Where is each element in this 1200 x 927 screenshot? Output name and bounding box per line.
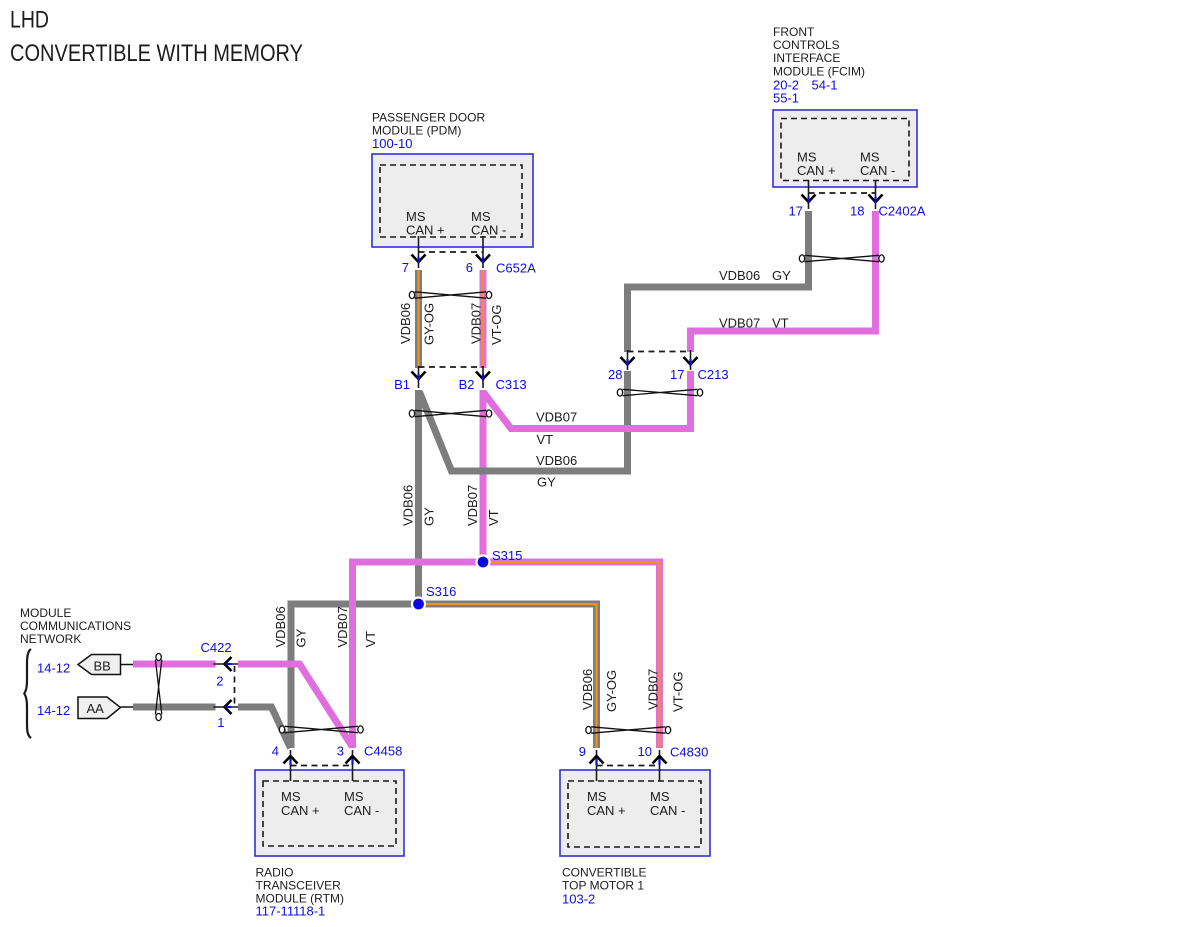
- CTM1 pin text MS CAN +: [587, 789, 626, 818]
- pin B1 arrow at C313: [412, 366, 426, 388]
- svg-text:MS: MS: [650, 789, 670, 804]
- wire VDB06 GY from FCIM pin 17 to C213 pin 28: [628, 211, 809, 352]
- connector label C2402A pins 17 18: [789, 204, 926, 219]
- svg-text:103-2: 103-2: [562, 892, 595, 907]
- RTM pin text MS CAN -: [344, 789, 379, 818]
- wire VDB07 VT-OG base from PDM pin 6 to C313 B2: [480, 270, 487, 368]
- svg-text:VDB07: VDB07: [646, 669, 661, 710]
- wire VDB07 VT from C422 pin 2 diagonal to C4458 pin 3: [238, 664, 353, 747]
- svg-text:C213: C213: [698, 367, 729, 382]
- wire label VDB07 VT above C4458: [335, 606, 378, 647]
- label PASSENGER DOOR MODULE (PDM) 100-10: [372, 110, 485, 151]
- svg-text:VT: VT: [363, 631, 378, 648]
- module box PDM: [372, 154, 533, 247]
- connector label C313 pins B1 B2: [394, 377, 526, 392]
- svg-text:C422: C422: [201, 640, 232, 655]
- svg-text:54-1: 54-1: [812, 78, 838, 93]
- wire label VDB06 GY-OG at PDM pin 7: [398, 303, 437, 345]
- orange stripe of VT-OG wire S315 to C4830 pin 10: [485, 562, 660, 748]
- CTM1 pin text MS CAN -: [650, 789, 685, 818]
- svg-text:LHD: LHD: [10, 7, 49, 34]
- svg-text:VT: VT: [772, 316, 789, 331]
- svg-text:GY: GY: [422, 507, 437, 526]
- FCIM pin text MS CAN +: [797, 150, 836, 179]
- wire VDB07 VT from BB flag to C422 pin 2: [133, 661, 216, 668]
- svg-text:C652A: C652A: [496, 261, 536, 276]
- wire VDB06 GY from C422 pin 1 diagonal to C4458 pin 4: [238, 707, 291, 748]
- svg-text:B2: B2: [459, 377, 475, 392]
- connector label C4458 pins 4 3: [272, 744, 403, 759]
- svg-text:CAN -: CAN -: [860, 163, 895, 178]
- svg-text:6: 6: [466, 260, 473, 275]
- label FRONT CONTROLS INTERFACE MODULE (FCIM) 20-2 54-1 55-1: [773, 25, 865, 106]
- twisted pair symbol above C4830: [586, 726, 671, 733]
- svg-text:VDB07: VDB07: [469, 303, 484, 344]
- connector C213 dashed line: [628, 351, 691, 353]
- svg-text:VDB06: VDB06: [398, 303, 413, 344]
- svg-text:10: 10: [638, 744, 652, 759]
- wire label VDB06 GY upper run: [719, 268, 791, 283]
- svg-text:MS: MS: [281, 789, 301, 804]
- svg-text:VDB07: VDB07: [335, 606, 350, 647]
- svg-text:TOP MOTOR 1: TOP MOTOR 1: [562, 879, 644, 893]
- wire label VDB07 VT middle run: [536, 410, 577, 448]
- orange stripe of GY-OG wire at PDM pin 7: [417, 270, 419, 368]
- label CONVERTIBLE TOP MOTOR 1 103-2: [562, 866, 646, 907]
- wire VDB07 VT segment C313 B2 to splice S315: [480, 390, 487, 562]
- connector label C422 pins 2 1: [201, 640, 232, 730]
- pin 28 arrow at C213: [621, 350, 635, 370]
- svg-text:VDB06: VDB06: [580, 669, 595, 710]
- network flag AA: [78, 697, 133, 719]
- svg-text:118-1: 118-1: [293, 904, 325, 919]
- svg-text:28: 28: [608, 367, 622, 382]
- svg-text:CAN +: CAN +: [587, 803, 626, 818]
- svg-text:CAN +: CAN +: [281, 803, 320, 818]
- twisted pair symbol below C313: [409, 410, 491, 417]
- svg-text:VT-OG: VT-OG: [671, 672, 686, 712]
- svg-text:CONVERTIBLE: CONVERTIBLE: [562, 866, 646, 880]
- PDM pin text MS CAN -: [471, 209, 506, 238]
- svg-text:CAN -: CAN -: [471, 223, 506, 238]
- connector label C4830 pins 9 10: [579, 744, 709, 760]
- svg-text:55-1: 55-1: [773, 91, 799, 106]
- svg-text:3: 3: [337, 744, 344, 759]
- svg-text:PASSENGER DOOR: PASSENGER DOOR: [372, 110, 485, 124]
- wire label VDB06 GY above C4458: [273, 606, 309, 647]
- svg-text:117-11: 117-11: [256, 904, 295, 919]
- connector label C652A pins 7 6: [402, 260, 536, 276]
- wire VDB06 GY from AA flag to C422 pin 1: [133, 704, 216, 711]
- label MODULE COMMUNICATIONS NETWORK: [20, 606, 131, 646]
- svg-text:NETWORK: NETWORK: [20, 632, 81, 646]
- svg-text:RADIO: RADIO: [256, 866, 294, 880]
- svg-text:17: 17: [789, 204, 803, 219]
- svg-text:S315: S315: [492, 548, 522, 563]
- svg-text:CONTROLS: CONTROLS: [773, 38, 840, 52]
- pin 4 arrow at C4458: [284, 750, 298, 781]
- svg-text:VDB06: VDB06: [719, 268, 760, 283]
- svg-text:CAN +: CAN +: [406, 223, 445, 238]
- svg-text:VT: VT: [486, 509, 501, 526]
- RTM pin text MS CAN +: [281, 789, 320, 818]
- pin 3 arrow at C4458: [346, 750, 360, 781]
- svg-text:CONVERTIBLE WITH MEMORY: CONVERTIBLE WITH MEMORY: [10, 40, 303, 67]
- module box CONVERTIBLE TOP MOTOR 1: [560, 770, 710, 856]
- svg-text:GY: GY: [294, 628, 309, 647]
- wire VDB06 GY-OG base from PDM pin 7 to C313 B1: [415, 270, 422, 368]
- svg-text:S316: S316: [426, 584, 456, 599]
- svg-text:CAN -: CAN -: [650, 803, 685, 818]
- wire VDB06 GY from S316 left and down to C4458 pin 4: [291, 604, 419, 748]
- pin B2 arrow at C313: [476, 366, 490, 388]
- module box FCIM: [773, 110, 917, 187]
- svg-text:MODULE (FCIM): MODULE (FCIM): [773, 65, 865, 79]
- svg-text:VDB07: VDB07: [465, 485, 480, 526]
- pin 17 arrow at C2402A: [802, 180, 816, 209]
- svg-text:VDB06: VDB06: [401, 485, 416, 526]
- svg-text:B1: B1: [394, 377, 410, 392]
- svg-text:C313: C313: [496, 377, 527, 392]
- svg-text:CAN +: CAN +: [797, 163, 836, 178]
- twisted pair symbol at C422: [155, 653, 161, 720]
- svg-text:17: 17: [670, 367, 684, 382]
- connector label C213 pins 28 17: [608, 367, 729, 382]
- svg-text:AA: AA: [87, 701, 105, 716]
- wire label VDB07 VT upper run: [719, 316, 789, 331]
- connector C4458 dashed line: [291, 765, 353, 767]
- wire label VDB07 VT-OG at PDM pin 6: [469, 303, 505, 345]
- label RADIO TRANSCEIVER MODULE (RTM) 117-11 118-1: [256, 866, 344, 919]
- pin 1 arrow at C422: [214, 700, 239, 714]
- pin 18 arrow at C2402A: [869, 180, 883, 209]
- pin 2 arrow at C422: [214, 657, 239, 671]
- svg-text:VDB06: VDB06: [536, 453, 577, 468]
- twisted pair symbol at C652A: [409, 291, 491, 298]
- twisted pair symbol at C213: [617, 389, 702, 396]
- wire label VDB07 VT below C313: [465, 485, 501, 526]
- svg-text:2: 2: [216, 674, 223, 689]
- svg-text:14-12: 14-12: [37, 661, 70, 676]
- FCIM pin text MS CAN -: [860, 150, 895, 179]
- svg-text:BB: BB: [94, 659, 111, 674]
- PDM pin text MS CAN +: [406, 209, 445, 238]
- svg-text:7: 7: [402, 260, 409, 275]
- connector C313 dashed line: [419, 366, 484, 368]
- pin 17 arrow at C213: [684, 350, 698, 370]
- module box RTM: [255, 770, 404, 856]
- splice S315: [475, 554, 490, 569]
- splice S316: [411, 596, 426, 611]
- svg-text:14-12: 14-12: [37, 703, 70, 718]
- wire VDB07 VT from FCIM pin 18 to C213 pin 17: [691, 211, 876, 352]
- svg-text:GY-OG: GY-OG: [422, 303, 437, 345]
- svg-text:9: 9: [579, 744, 586, 759]
- svg-text:MS: MS: [344, 789, 364, 804]
- svg-text:CAN -: CAN -: [344, 803, 379, 818]
- wire label VDB06 GY-OG above C4830: [580, 669, 619, 712]
- wire VDB07 VT-OG base from S315 right and down to C4830 pin 10: [483, 562, 660, 748]
- wire label VDB06 GY middle run: [536, 453, 577, 490]
- svg-text:VDB07: VDB07: [536, 410, 577, 425]
- svg-text:TRANSCEIVER: TRANSCEIVER: [256, 879, 342, 893]
- twisted pair symbol above C4458: [279, 726, 363, 733]
- svg-text:MODULE: MODULE: [20, 606, 71, 620]
- svg-text:4: 4: [272, 744, 279, 759]
- svg-text:GY: GY: [537, 475, 556, 490]
- twisted pair symbol at C2402A: [799, 255, 884, 262]
- wire VDB06 GY from C213 pin 28 down and left to C313 B1: [420, 371, 628, 471]
- pin 7 arrow at C652A: [412, 236, 426, 268]
- svg-text:VDB06: VDB06: [273, 606, 288, 647]
- connector C4830 dashed line: [597, 765, 660, 767]
- connector C652A dashed line: [419, 251, 484, 253]
- orange stripe of VT-OG wire at PDM pin 6: [482, 270, 484, 368]
- svg-text:INTERFACE: INTERFACE: [773, 51, 840, 65]
- wire VDB06 GY-OG base from S316 right and down to C4830 pin 9: [419, 604, 597, 748]
- svg-text:MS: MS: [587, 789, 607, 804]
- network flag BB: [78, 655, 133, 675]
- svg-text:GY: GY: [772, 268, 791, 283]
- wire VDB06 GY from C313 B1 down to splice S316: [415, 390, 422, 604]
- svg-text:VT: VT: [537, 432, 554, 447]
- wire VDB07 VT from C213 pin 17 down and left to C313 B2: [484, 371, 691, 429]
- wire label VDB06 GY below C313: [401, 485, 437, 526]
- svg-text:COMMUNICATIONS: COMMUNICATIONS: [20, 619, 131, 633]
- connector C422 dashed line: [234, 666, 236, 705]
- connector C2402A dashed line: [809, 192, 876, 194]
- svg-text:100-10: 100-10: [372, 136, 412, 151]
- brace for module communications network: [24, 649, 31, 738]
- svg-text:18: 18: [850, 204, 864, 219]
- svg-text:1: 1: [217, 715, 224, 730]
- pin 6 arrow at C652A: [476, 236, 490, 268]
- svg-text:C4830: C4830: [670, 745, 708, 760]
- wire label VDB07 VT-OG above C4830: [646, 669, 686, 712]
- pin 10 arrow at C4830: [653, 750, 667, 781]
- svg-text:VT-OG: VT-OG: [489, 305, 504, 345]
- wire VDB07 VT from S315 left and down to C4458 pin 3: [353, 562, 484, 748]
- orange stripe of GY-OG wire S316 to C4830 pin 9: [420, 604, 597, 748]
- svg-text:C4458: C4458: [364, 744, 402, 759]
- svg-text:FRONT: FRONT: [773, 25, 815, 39]
- svg-text:GY-OG: GY-OG: [604, 670, 619, 712]
- svg-text:C2402A: C2402A: [879, 204, 926, 219]
- svg-text:VDB07: VDB07: [719, 316, 760, 331]
- pin 9 arrow at C4830: [590, 750, 604, 781]
